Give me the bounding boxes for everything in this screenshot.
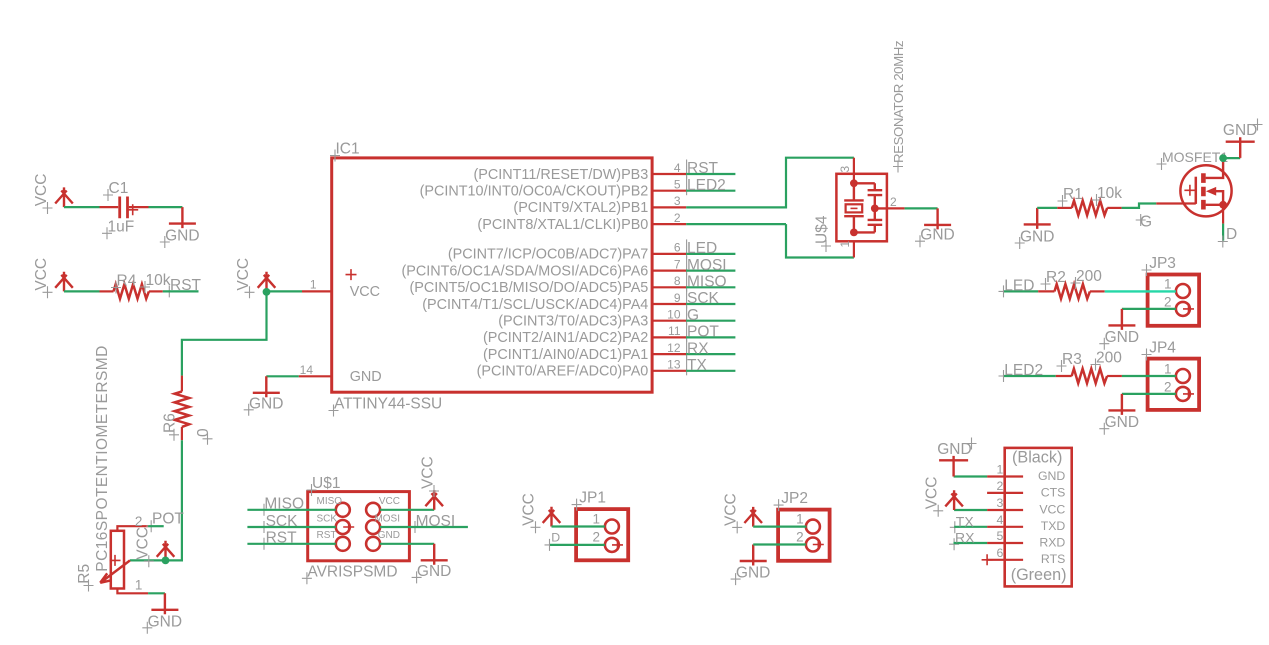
wire VCC to C1 [64, 206, 100, 208]
resistor R1 [1072, 201, 1107, 216]
svg-text:G: G [1140, 214, 1152, 231]
svg-text:(PCINT11/RESET/DW)PB3: (PCINT11/RESET/DW)PB3 [473, 167, 648, 183]
wire JP2 pin 2 to GND [753, 543, 806, 545]
wire drain to GND+ [1223, 157, 1240, 159]
svg-text:MOSFET1: MOSFET1 [1162, 149, 1228, 165]
C1 left lead [100, 206, 119, 208]
svg-text:1: 1 [310, 278, 317, 292]
svg-text:VCC: VCC [134, 527, 151, 560]
svg-text:(PCINT5/OC1B/MISO/DO/ADC5)PA5: (PCINT5/OC1B/MISO/DO/ADC5)PA5 [409, 280, 648, 296]
svg-text:GND: GND [1105, 329, 1139, 346]
net stub D [1222, 224, 1224, 241]
ground (JP2) [740, 545, 767, 566]
resistor R4 [114, 284, 149, 299]
label origin SCK [686, 290, 688, 309]
svg-text:1: 1 [796, 511, 804, 526]
VCC supply (FTDI) [945, 490, 963, 510]
label origin MOSI [686, 256, 688, 275]
svg-text:LED2: LED2 [1004, 362, 1043, 379]
svg-text:U$4: U$4 [814, 215, 831, 244]
svg-text:7: 7 [674, 257, 681, 271]
IC1 pin 6 stub [652, 253, 686, 255]
svg-text:TX: TX [687, 357, 707, 374]
JP3 pin 2 circle [1176, 302, 1190, 316]
FTDI pin 6 stub [987, 559, 1023, 561]
R2 left lead [1038, 290, 1054, 292]
wire GND to R1 [1037, 207, 1057, 209]
svg-text:VCC: VCC [33, 258, 50, 291]
svg-text:(Green): (Green) [1011, 566, 1067, 584]
svg-text:MOSI: MOSI [416, 513, 456, 530]
svg-text:RST: RST [170, 277, 202, 294]
U$1 left pin circle row 1 [336, 503, 350, 517]
R6 top lead [181, 376, 183, 392]
svg-text:SCK: SCK [687, 290, 720, 307]
svg-text:2: 2 [1164, 295, 1172, 310]
svg-text:VCC: VCC [235, 258, 252, 291]
svg-text:PC16SPOTENTIOMETERSMD: PC16SPOTENTIOMETERSMD [94, 345, 111, 571]
svg-text:GND: GND [249, 395, 283, 412]
svg-text:SCK: SCK [266, 513, 299, 530]
svg-text:1: 1 [1164, 362, 1172, 377]
svg-text:VCC: VCC [379, 496, 400, 507]
wire net MISO [247, 509, 335, 511]
MOSFET source lead [1222, 205, 1224, 224]
ground (JP4) [1108, 394, 1135, 415]
svg-text:VCC: VCC [350, 284, 380, 300]
MOSFET gate lead [1156, 202, 1196, 204]
connector FTDI body [1005, 448, 1072, 587]
svg-text:11: 11 [668, 324, 681, 338]
svg-text:1: 1 [838, 241, 852, 248]
connector JP1 body [576, 509, 628, 560]
R5 pin 1 lead [117, 589, 148, 594]
svg-text:2: 2 [592, 530, 600, 545]
svg-text:VCC: VCC [521, 493, 538, 526]
ground (resonator) [924, 208, 951, 229]
svg-text:POT: POT [687, 324, 719, 341]
svg-text:R6: R6 [162, 413, 179, 433]
svg-text:TX: TX [956, 513, 975, 529]
R5 origin [110, 555, 121, 566]
wire R1 to gate net G [1122, 204, 1157, 208]
svg-text:MISO: MISO [264, 496, 304, 513]
svg-text:3: 3 [674, 194, 681, 208]
ground (C1) [169, 207, 196, 228]
svg-text:(PCINT0/AREF/ADC0)PA0: (PCINT0/AREF/ADC0)PA0 [477, 364, 649, 380]
svg-text:(PCINT4/T1/SCL/USCK/ADC4)PA4: (PCINT4/T1/SCL/USCK/ADC4)PA4 [422, 297, 648, 313]
net stub SCK [686, 303, 735, 305]
C1 right lead [129, 206, 149, 208]
connector JP3 body [1148, 275, 1200, 326]
IC1 pin 2 stub [652, 223, 686, 225]
net stub POT [148, 525, 164, 527]
svg-text:VCC: VCC [722, 493, 739, 526]
svg-text:GND: GND [736, 565, 770, 582]
R2 right lead [1090, 290, 1105, 292]
svg-text:GND: GND [417, 563, 451, 580]
IC1 origin cross [346, 269, 357, 280]
R6 bottom lead [181, 427, 183, 440]
JP3 origin [1183, 303, 1194, 314]
POT label origin [146, 520, 156, 532]
svg-text:JP1: JP1 [579, 490, 606, 507]
svg-text:POT: POT [152, 511, 184, 528]
svg-text:RX: RX [955, 530, 975, 546]
junction resonator pin1 node [850, 229, 858, 237]
svg-text:13: 13 [667, 358, 681, 372]
wire net RST [247, 543, 335, 545]
wire to resonator pin 1 [786, 224, 854, 257]
svg-text:(PCINT6/OC1A/SDA/MOSI/ADC6)PA6: (PCINT6/OC1A/SDA/MOSI/ADC6)PA6 [401, 263, 648, 279]
wire R6 to potentiometer wiper [130, 440, 182, 560]
svg-text:MOSI: MOSI [687, 257, 727, 274]
net stub LED [686, 253, 735, 255]
JP4 pin 2 circle [1176, 387, 1190, 401]
svg-text:5: 5 [674, 178, 681, 192]
ground GND+ (flipped, FTDI) [939, 456, 968, 477]
JP1 origin [612, 539, 623, 550]
svg-text:(PCINT10/INT0/OC0A/CKOUT)PB2: (PCINT10/INT0/OC0A/CKOUT)PB2 [420, 184, 649, 200]
JP4 pin 1 circle [1176, 369, 1190, 383]
R5 wiper arrow [100, 560, 130, 582]
svg-text:RST: RST [266, 530, 298, 547]
LED2 label origin [999, 370, 1009, 382]
resonator pin 2 lead [887, 207, 905, 209]
ground (AVRISP) [421, 544, 448, 565]
svg-text:(PCINT3/T0/ADC3)PA3: (PCINT3/T0/ADC3)PA3 [498, 314, 648, 330]
svg-text:6: 6 [996, 546, 1003, 560]
wire net MOSI [380, 526, 468, 528]
resistor R2 [1055, 284, 1090, 299]
svg-text:12: 12 [667, 341, 681, 355]
IC1 pin 11 stub [652, 336, 686, 338]
svg-text:(PCINT9/XTAL2)PB1: (PCINT9/XTAL2)PB1 [513, 200, 648, 216]
svg-text:CTS: CTS [1041, 485, 1066, 499]
svg-text:RTS: RTS [1041, 552, 1065, 566]
svg-text:D: D [1226, 226, 1237, 243]
svg-text:2: 2 [1164, 380, 1172, 395]
junction node VCC [263, 288, 271, 296]
net stub D [550, 544, 605, 546]
IC1 pin 5 stub [652, 190, 686, 192]
svg-text:2: 2 [890, 195, 897, 209]
svg-text:1: 1 [135, 578, 143, 593]
net stub MOSI [686, 270, 735, 272]
wire pin 14 to GND [266, 375, 299, 377]
IC1 pin 10 stub [652, 320, 686, 322]
svg-text:(PCINT7/ICP/OC0B/ADC7)PA7: (PCINT7/ICP/OC0B/ADC7)PA7 [448, 247, 648, 263]
label origin RST [686, 160, 688, 179]
resistor R3 [1072, 369, 1107, 384]
label origin G [686, 306, 688, 325]
MOSFET1 origin [1184, 185, 1195, 196]
R3 left lead [1056, 375, 1072, 377]
G label origin [1136, 214, 1146, 226]
junction source node [1219, 201, 1227, 209]
wire JP4 pin 2 to GND [1122, 393, 1176, 395]
label origin LED [686, 239, 688, 258]
capacitor C1 [120, 197, 128, 219]
wire FTDI pin 3 to VCC [954, 509, 987, 511]
svg-text:2: 2 [996, 479, 1003, 493]
transistor MOSFET1 [1180, 165, 1231, 216]
JP4 origin [1183, 388, 1194, 399]
svg-text:5: 5 [996, 529, 1003, 543]
svg-text:JP3: JP3 [1149, 255, 1176, 272]
svg-text:GND: GND [1038, 469, 1065, 483]
IC1 pin 1 stub [302, 290, 332, 292]
wire VCC to JP1 pin 1 [552, 525, 605, 527]
VCC supply (pot) [157, 541, 175, 561]
R4 left lead [100, 290, 114, 292]
svg-text:JP4: JP4 [1149, 340, 1176, 357]
wire C1 to GND [149, 206, 183, 208]
svg-text:GND: GND [378, 530, 400, 541]
svg-text:10k: 10k [1097, 185, 1122, 202]
IC1 pin 3 stub [652, 206, 686, 208]
wire net SCK [247, 526, 335, 528]
svg-text:2: 2 [135, 514, 143, 529]
svg-text:GND: GND [165, 228, 199, 245]
IC1 pin 9 stub [652, 303, 686, 305]
label origin MISO [686, 273, 688, 292]
ground (IC1 pin14) [253, 376, 280, 397]
VCC supply (C1) [55, 187, 73, 207]
FTDI pin 1 stub [987, 475, 1023, 477]
JP2 pin 1 circle [806, 520, 820, 534]
wire R2 to JP3 pin 1 (highlighted) [1105, 290, 1176, 292]
connector JP4 body [1148, 359, 1200, 410]
svg-text:TXD: TXD [1041, 519, 1066, 533]
svg-text:0: 0 [195, 428, 212, 437]
net stub RST [686, 173, 735, 175]
svg-text:4: 4 [996, 513, 1003, 527]
svg-text:RX: RX [687, 340, 709, 357]
net stub LED2 [686, 190, 735, 192]
svg-text:8: 8 [674, 274, 681, 288]
RST label origin [164, 285, 174, 297]
R5 pin 2 lead [117, 526, 148, 531]
U$1 left pin circle row 3 [336, 537, 350, 551]
FTDI origin [982, 554, 993, 565]
svg-text:6: 6 [674, 241, 681, 255]
R1 left lead [1057, 207, 1072, 209]
R4 right lead [149, 290, 163, 292]
svg-text:GND: GND [1020, 228, 1054, 245]
wire resonator to GND [905, 207, 938, 209]
ground GND+ (flipped) [1226, 137, 1255, 158]
svg-text:MOSI: MOSI [374, 513, 400, 524]
net stub TX [686, 370, 735, 372]
wire R5 pin1 to GND [148, 592, 165, 594]
potentiometer R5 body [111, 531, 124, 589]
svg-text:VCC: VCC [1039, 502, 1065, 516]
svg-text:10: 10 [667, 308, 681, 322]
resonator U$4 body [836, 174, 887, 242]
svg-text:4: 4 [674, 161, 681, 175]
RST label origin [259, 538, 269, 550]
JP3 pin 1 circle [1176, 284, 1190, 298]
svg-text:GND: GND [920, 227, 954, 244]
svg-text:VCC: VCC [924, 477, 941, 510]
FTDI pin 4 stub [987, 526, 1023, 528]
wire VCC row [380, 509, 434, 511]
resonator internal capacitors [854, 183, 887, 232]
connector U$1 AVRISPSMD body [308, 492, 410, 561]
svg-text:AVRISPSMD: AVRISPSMD [307, 563, 397, 580]
wire XTAL2 to resonator pin 3 [686, 158, 854, 208]
svg-text:VCC: VCC [33, 174, 50, 207]
wire VCC branch to R6 [182, 291, 267, 375]
wire VCC to R4 [64, 290, 100, 292]
svg-text:GND: GND [937, 441, 971, 458]
net stub TX [954, 526, 987, 528]
FTDI pin 2 stub [987, 492, 1023, 494]
svg-text:3: 3 [838, 166, 852, 173]
svg-text:1: 1 [996, 463, 1003, 477]
svg-text:MISO: MISO [317, 496, 343, 507]
LED label origin [999, 285, 1009, 297]
D label origin [1218, 236, 1228, 248]
wire FTDI pin 1 to GND+ [954, 475, 988, 477]
wire XTAL1 segment [686, 223, 786, 225]
VCC supply (IC1 pin1) [258, 272, 276, 292]
svg-text:GND: GND [1105, 414, 1139, 431]
wire JP3 pin 2 to GND [1122, 308, 1176, 310]
R1 right lead [1107, 207, 1121, 209]
svg-text:SCK: SCK [317, 513, 338, 524]
VCC supply (R4) [55, 272, 73, 292]
net stub RX [686, 353, 735, 355]
IC1 pin 14 stub [299, 375, 332, 377]
IC1 pin 4 stub [652, 173, 686, 175]
IC1 pin 7 stub [652, 270, 686, 272]
svg-text:1: 1 [1164, 277, 1172, 292]
svg-text:RESONATOR 20MHz: RESONATOR 20MHz [891, 41, 906, 163]
U$1 right pin circle row 2 [366, 520, 380, 534]
svg-text:R5: R5 [76, 564, 93, 584]
svg-text:GND: GND [1223, 122, 1257, 139]
IC1 pin 8 stub [652, 286, 686, 288]
svg-text:14: 14 [300, 363, 314, 377]
svg-text:(PCINT1/AIN0/ADC1)PA1: (PCINT1/AIN0/ADC1)PA1 [483, 347, 648, 363]
junction node pot wiper [162, 557, 170, 565]
R3 right lead [1107, 375, 1122, 377]
FTDI pin 3 stub [987, 509, 1023, 511]
JP1 pin 2 circle [605, 538, 619, 552]
junction resonator pin2 node [871, 205, 879, 213]
U$1 right pin circle row 1 [366, 503, 380, 517]
TX label origin [950, 521, 960, 533]
MISO label origin [259, 504, 269, 516]
net stub LED [1004, 290, 1038, 292]
net stub LED2 [1004, 375, 1056, 377]
VCC supply (AVRISP) [425, 490, 443, 510]
D label origin [545, 539, 555, 551]
svg-text:VCC: VCC [420, 456, 437, 489]
wire VCC to JP2 pin 1 [753, 525, 806, 527]
resistor R6 [175, 392, 190, 427]
svg-text:(PCINT2/AIN1/ADC2)PA2: (PCINT2/AIN1/ADC2)PA2 [483, 330, 648, 346]
svg-text:MISO: MISO [687, 274, 727, 291]
svg-text:R1: R1 [1063, 186, 1083, 203]
ground (R5) [151, 593, 178, 614]
svg-text:2: 2 [796, 529, 804, 544]
IC IC1 ATTINY44-SSU body [332, 158, 652, 392]
svg-text:D: D [551, 531, 560, 545]
connector JP2 body [778, 510, 830, 561]
svg-text:GND: GND [148, 613, 182, 630]
label origin TX [686, 356, 688, 375]
IC1 pin 12 stub [652, 353, 686, 355]
label origin RX [686, 340, 688, 359]
VCC supply (JP2) [744, 507, 762, 527]
U$1 left pin circle row 2 [336, 520, 350, 534]
ground (R1) [1024, 208, 1051, 229]
U$1 origin [343, 522, 354, 533]
SCK label origin [259, 521, 269, 533]
RX label origin [949, 538, 959, 550]
svg-text:LED: LED [1004, 278, 1034, 295]
label origin LED2 [686, 176, 688, 195]
FTDI pin 5 stub [987, 542, 1023, 544]
svg-text:LED: LED [687, 240, 717, 257]
net stub POT [686, 336, 735, 338]
junction drain node [1219, 154, 1227, 162]
svg-text:(PCINT8/XTAL1/CLKI)PB0: (PCINT8/XTAL1/CLKI)PB0 [477, 217, 648, 233]
JP1 pin 1 circle [605, 520, 619, 534]
svg-text:(Black): (Black) [1012, 448, 1062, 466]
net stub G [686, 320, 735, 322]
svg-text:9: 9 [674, 291, 681, 305]
wire GND row [380, 543, 434, 545]
junction resonator pin3 node [850, 179, 858, 187]
resonator pin 3 lead [853, 158, 855, 184]
wire VCC to pin 1 [267, 290, 303, 292]
net stub RX [954, 542, 988, 544]
svg-text:C1: C1 [109, 180, 129, 197]
svg-text:RST: RST [317, 530, 337, 541]
net stub MISO [686, 286, 735, 288]
wire net RST [163, 290, 199, 292]
resonator pin 1 lead [853, 241, 855, 257]
svg-text:JP2: JP2 [781, 490, 808, 507]
JP2 origin [813, 539, 824, 550]
MOSI label origin [410, 521, 420, 533]
svg-text:RXD: RXD [1039, 535, 1065, 549]
JP2 pin 2 circle [806, 538, 820, 552]
svg-text:GND: GND [350, 369, 382, 385]
svg-text:G: G [687, 307, 699, 324]
svg-text:2: 2 [674, 211, 681, 225]
svg-text:LED2: LED2 [687, 177, 726, 194]
wire R3 to JP4 pin 1 [1122, 375, 1176, 377]
IC1 pin 13 stub [652, 370, 686, 372]
svg-text:1: 1 [592, 511, 600, 526]
VCC supply (JP1) [543, 507, 561, 527]
svg-text:ATTINY44-SSU: ATTINY44-SSU [334, 396, 442, 413]
svg-text:IC1: IC1 [336, 141, 360, 158]
resonator crystal symbol [844, 183, 864, 232]
label origin POT [686, 323, 688, 342]
ground (JP3) [1108, 309, 1135, 330]
svg-text:3: 3 [996, 496, 1003, 510]
U$1 right pin circle row 3 [366, 537, 380, 551]
svg-text:RST: RST [687, 160, 719, 177]
